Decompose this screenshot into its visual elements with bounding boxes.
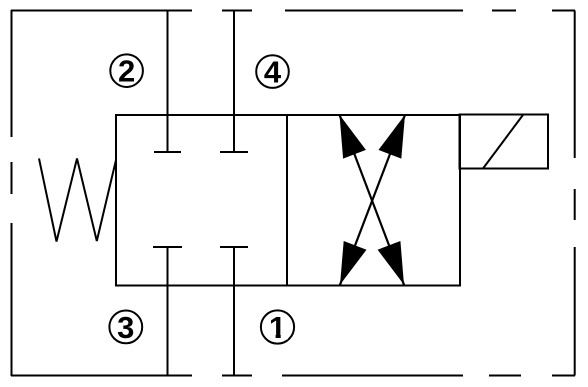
svg-text:4: 4 xyxy=(264,55,282,90)
svg-text:3: 3 xyxy=(117,310,134,345)
svg-text:1: 1 xyxy=(269,310,286,345)
svg-text:2: 2 xyxy=(118,54,135,89)
